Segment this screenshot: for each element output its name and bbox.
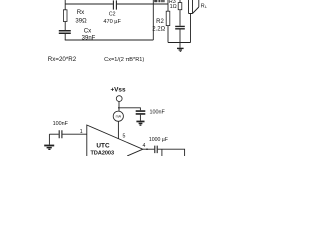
svg-text:470 µF: 470 µF: [103, 19, 121, 25]
junction dot supply: [118, 107, 120, 109]
svg-text:39nF: 39nF: [82, 36, 96, 42]
svg-text:+Vss: +Vss: [110, 86, 126, 93]
supply terminal circle: [116, 96, 122, 102]
svg-text:RL: RL: [201, 4, 208, 10]
wire input to cap: [49, 133, 58, 135]
svg-text:1Ω: 1Ω: [170, 4, 177, 10]
bottom figure: [49, 96, 184, 156]
wire cap to ground: [139, 115, 141, 121]
wire R2 branch top: [167, 0, 169, 11]
wire supply junction to cap: [119, 108, 141, 111]
wire output drop: [161, 149, 163, 156]
svg-text:Rx: Rx: [77, 9, 85, 16]
wire ground rail: [168, 42, 191, 44]
wire output: [143, 148, 155, 150]
wire meter to pin5: [117, 121, 119, 138]
svg-text:Rx=20*R2: Rx=20*R2: [48, 56, 77, 63]
junction dot: [146, 148, 148, 150]
wire Cx to bottom rail: [64, 34, 66, 40]
ground right 100nF: [136, 121, 144, 123]
ground input wire: [48, 134, 50, 144]
capacitor 100nF right: [136, 111, 146, 114]
svg-text:UTC: UTC: [96, 143, 110, 150]
cut-off text fragment: [154, 0, 157, 2]
capacitor Cx: [59, 31, 71, 34]
wire Rx to Cx: [64, 22, 66, 31]
wire capacitor to ground: [179, 30, 181, 48]
speaker RL: [189, 0, 199, 14]
wire R3 to capacitor: [179, 10, 181, 26]
svg-text:TDA2003: TDA2003: [91, 151, 115, 157]
wire output right: [158, 149, 185, 156]
capacitor 100nF input: [59, 130, 62, 138]
resistor R2: [166, 11, 170, 25]
svg-text:100nF: 100nF: [150, 110, 166, 116]
wire vertical feedback line: [152, 0, 154, 40]
wire output stub and top rail: [65, 0, 168, 10]
ground top figure: [177, 48, 184, 49]
resistor R3: [178, 3, 182, 10]
wire speaker return: [190, 14, 192, 43]
svg-text:1: 1: [80, 129, 83, 135]
svg-text:1000 µF: 1000 µF: [149, 137, 168, 143]
svg-text:5: 5: [123, 133, 126, 139]
svg-text:Cx=1/(2 πB*R1): Cx=1/(2 πB*R1): [104, 57, 144, 63]
ground input: [44, 145, 54, 147]
svg-text:Cx: Cx: [84, 27, 92, 34]
op-amp U1 triangle: [87, 125, 143, 156]
svg-text:2.2Ω: 2.2Ω: [152, 27, 165, 33]
wire terminal to meter: [118, 102, 120, 112]
capacitor C2: [113, 0, 116, 9]
svg-text:4: 4: [142, 143, 145, 149]
wire bottom rail: [65, 39, 154, 41]
resistor Rx: [63, 10, 67, 22]
svg-text:R2: R2: [156, 19, 164, 25]
capacitor C5: [175, 26, 185, 28]
svg-text:C2: C2: [109, 11, 116, 17]
svg-text:mA: mA: [116, 115, 122, 119]
svg-text:100nF: 100nF: [53, 121, 69, 127]
svg-text:39Ω: 39Ω: [75, 18, 87, 24]
meter mA: [113, 111, 123, 121]
wire R2 bottom to ground rail: [167, 26, 169, 43]
wire cap to pin1: [62, 133, 86, 135]
capacitor 1000uF: [155, 146, 157, 154]
wire R3 branch top: [179, 0, 181, 3]
